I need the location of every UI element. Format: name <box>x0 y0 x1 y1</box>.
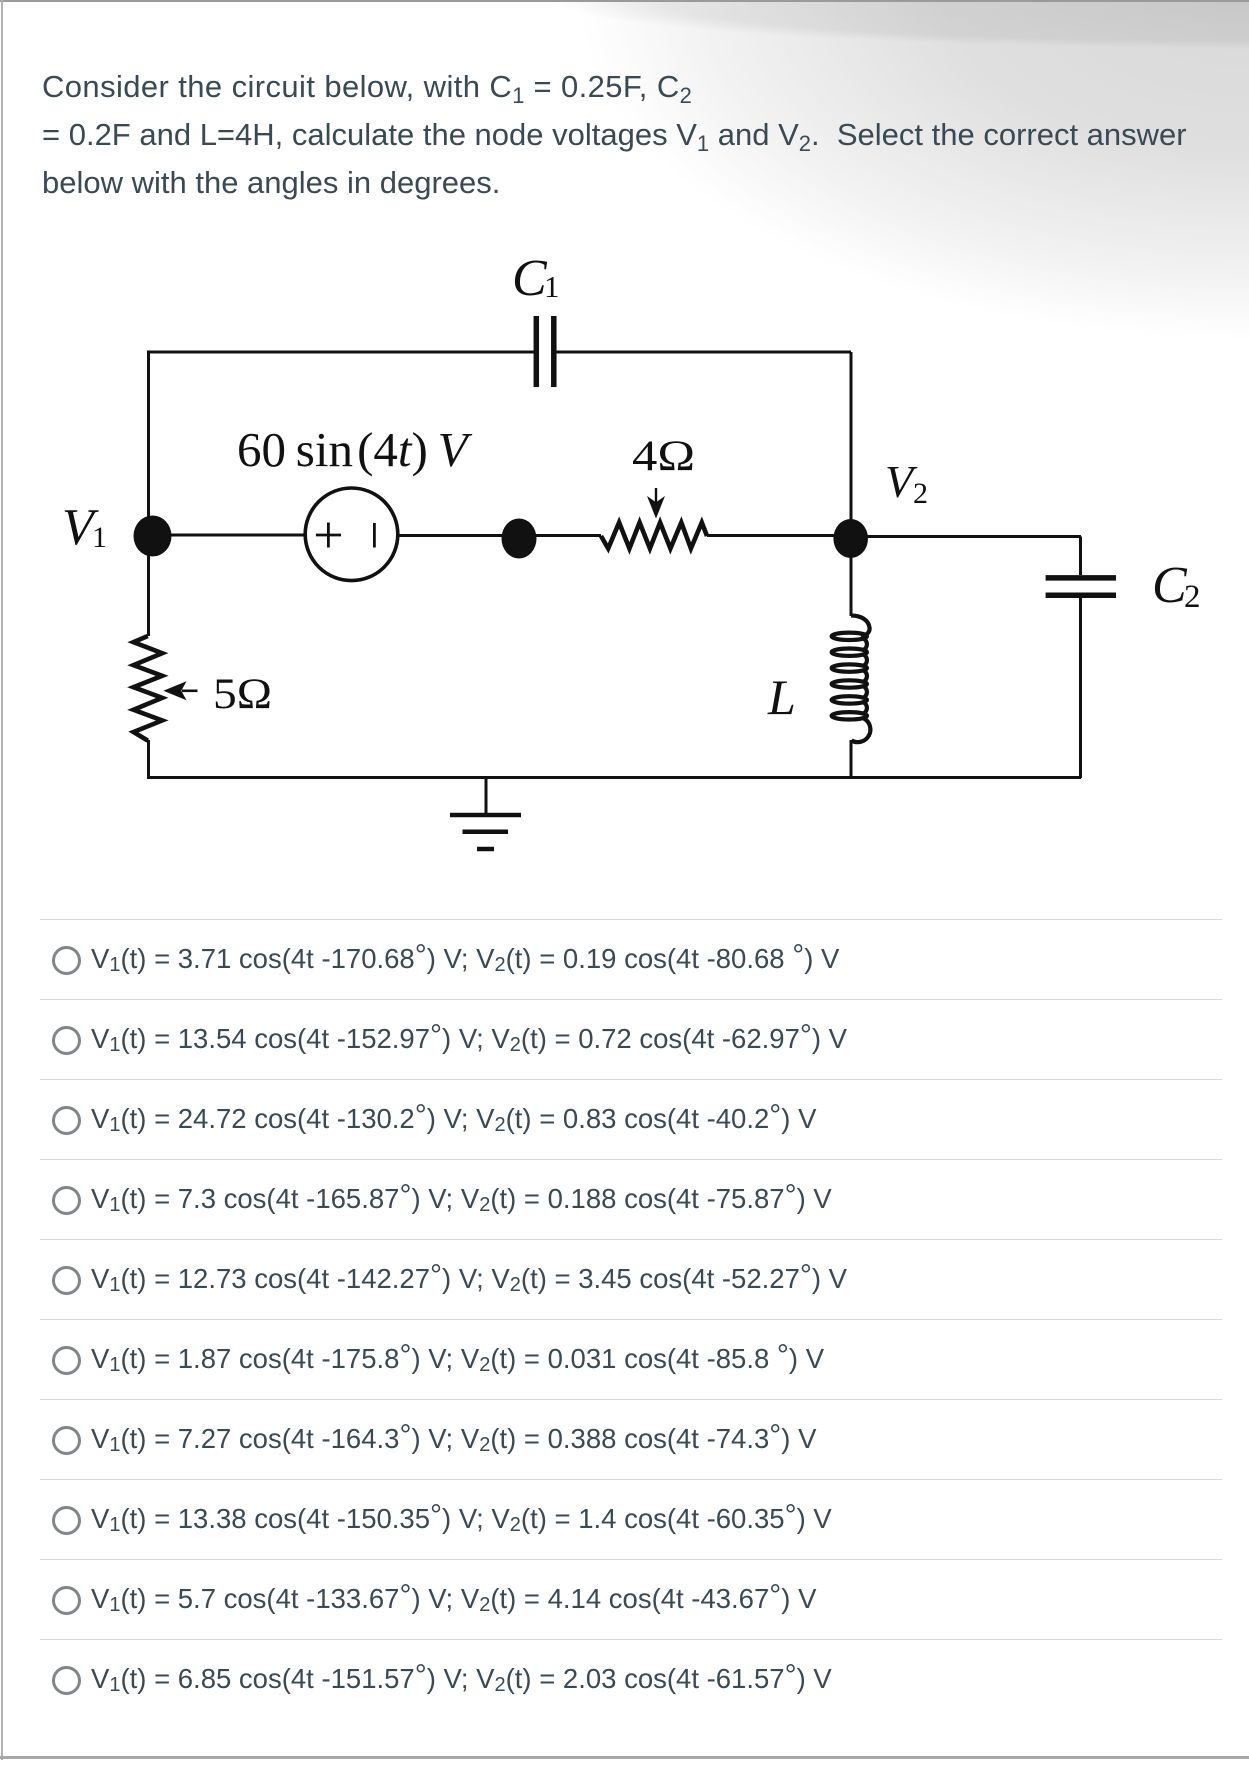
wire source to 4-ohm resistor <box>398 534 601 537</box>
wire right vertical (top corner down to V2 node) <box>850 352 853 537</box>
answers <box>40 919 1222 920</box>
wire C1 right plate to top-right corner <box>554 351 851 354</box>
svg-text:1: 1 <box>544 269 560 304</box>
wire V2 node to C2 branch <box>851 535 1081 538</box>
svg-text:5Ω: 5Ω <box>213 671 272 718</box>
wire V2 node down to inductor <box>850 537 853 616</box>
arrow at 4-ohm <box>647 488 665 519</box>
circuit schematic <box>0 0 1249 890</box>
wire 5-ohm resistor to bottom rail <box>147 740 150 778</box>
node V2 <box>833 519 868 558</box>
svg-text:2: 2 <box>913 477 928 510</box>
svg-text:2: 2 <box>1184 579 1201 615</box>
wire 4-ohm resistor to node V2 <box>707 534 851 537</box>
svg-text:C: C <box>512 250 548 307</box>
inductor L <box>832 616 871 743</box>
wire C2 bottom plate down to bottom rail <box>1079 598 1082 778</box>
wire inductor bottom to bottom rail <box>850 740 853 778</box>
svg-text:4Ω: 4Ω <box>632 433 695 480</box>
wire left vertical (V1 down to 5-ohm resistor) <box>147 351 150 637</box>
wire top-left to C1 left plate <box>147 351 536 354</box>
node A (junction between source and 4-ohm) <box>502 519 537 559</box>
resistor R 5ohm <box>134 636 163 741</box>
wire C2 branch down to top plate <box>1079 537 1082 576</box>
capacitor C1 <box>536 316 554 387</box>
ground <box>450 777 521 849</box>
source VS 60sin(4t) <box>305 488 398 581</box>
svg-text:60 sin (4t) V: 60 sin (4t) V <box>237 422 473 477</box>
svg-text:C: C <box>1152 557 1188 614</box>
wire V1 node to source <box>150 534 306 537</box>
node V1 <box>134 516 172 557</box>
svg-text:L: L <box>767 669 796 725</box>
resistor R 4ohm <box>601 523 707 549</box>
capacitor C2 <box>1046 578 1116 595</box>
svg-text:1: 1 <box>92 521 107 554</box>
arrow at 5-ohm <box>163 681 197 700</box>
wire bottom rail <box>147 776 1081 779</box>
